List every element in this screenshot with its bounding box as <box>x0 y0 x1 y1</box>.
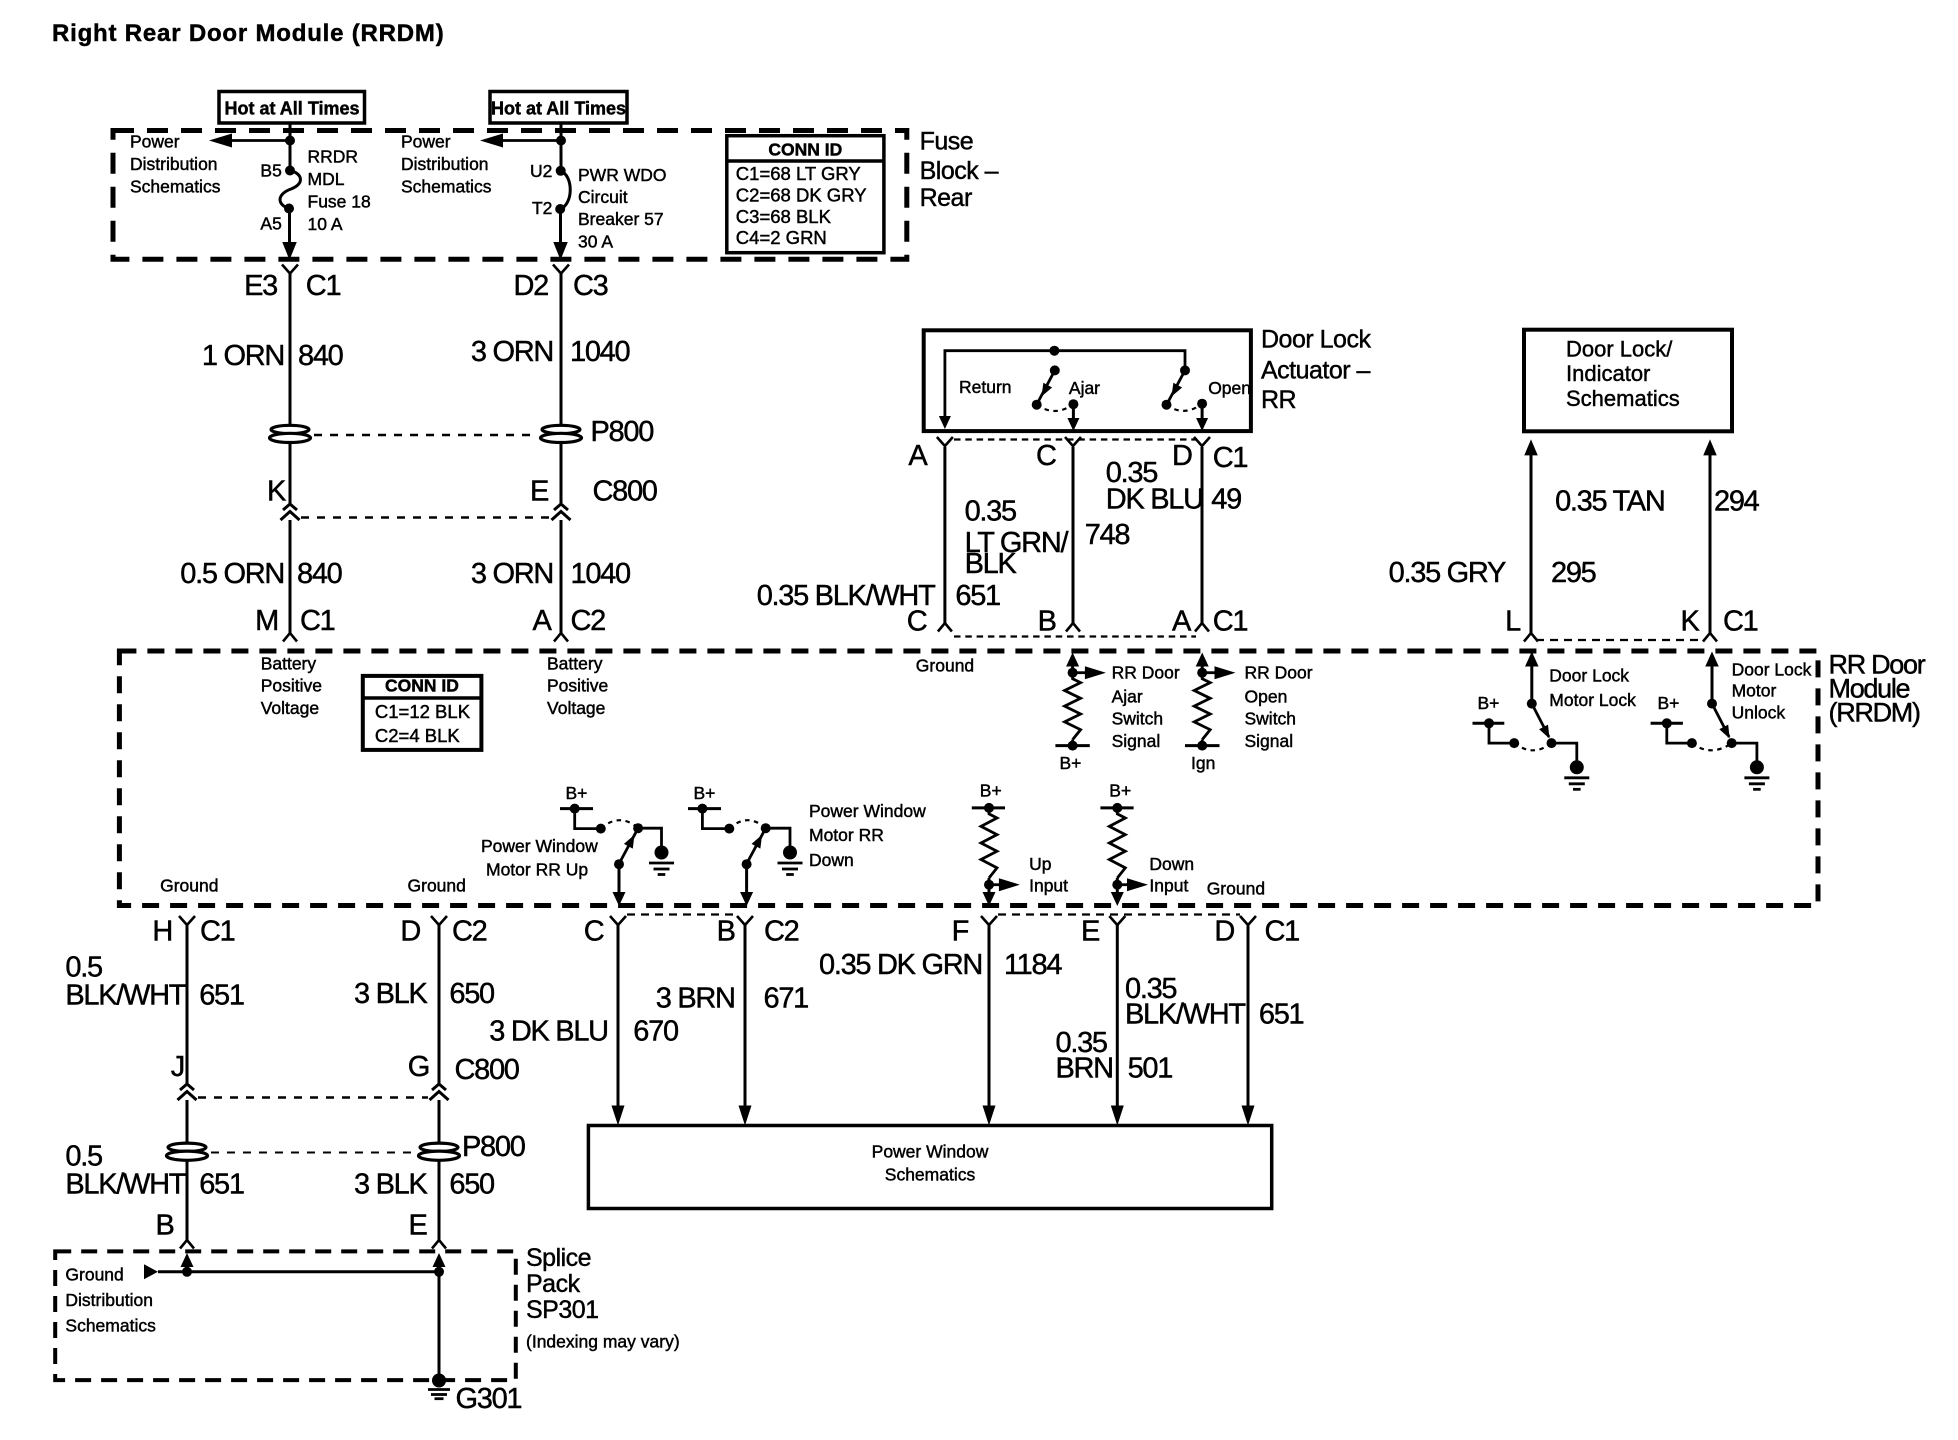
wire connector to M <box>289 520 292 633</box>
ajar switch pivot junction dot <box>1049 346 1059 356</box>
svg-text:E: E <box>408 1210 427 1242</box>
ajar signal B+ bar <box>1055 744 1089 747</box>
connector link dashed wire <box>301 516 550 519</box>
wire K up arrow <box>1703 439 1717 455</box>
svg-text:Ajar: Ajar <box>1112 687 1143 707</box>
down input output arrow <box>1116 885 1119 893</box>
wire connector to A <box>560 520 563 633</box>
open switch thrown contact dot <box>1162 400 1172 410</box>
wire B to pw box <box>744 925 747 1107</box>
svg-text:0.35 GRY: 0.35 GRY <box>1389 557 1506 589</box>
svg-text:A5: A5 <box>260 213 281 233</box>
svg-text:Distribution: Distribution <box>130 154 218 174</box>
svg-text:T2: T2 <box>532 198 552 218</box>
svg-text:Positive: Positive <box>547 676 608 696</box>
wire F to pw box <box>988 925 991 1107</box>
hot-at-all-times box 1 <box>219 92 365 124</box>
svg-text:RR Door: RR Door <box>1112 662 1180 682</box>
svg-text:A: A <box>1172 606 1192 638</box>
wire grommet to connector K <box>289 443 292 504</box>
svg-text:BLK/WHT: BLK/WHT <box>65 1169 186 1201</box>
up input wire <box>988 878 991 885</box>
svg-text:Actuator –: Actuator – <box>1261 356 1371 384</box>
svg-text:B5: B5 <box>260 160 281 180</box>
svg-text:Indicator: Indicator <box>1566 361 1650 386</box>
ajar switch upper contact dot <box>1050 365 1060 375</box>
ground G301 symbol <box>432 1374 446 1388</box>
svg-text:0.35: 0.35 <box>965 495 1016 527</box>
svg-text:Splice: Splice <box>526 1244 591 1272</box>
grommet link dashed wire <box>314 434 537 437</box>
svg-text:SP301: SP301 <box>526 1296 599 1324</box>
svg-text:C2: C2 <box>571 605 606 637</box>
pw up output wire <box>618 864 621 893</box>
open switch corner dot <box>1180 365 1190 375</box>
svg-text:651: 651 <box>199 1169 244 1201</box>
svg-text:(RRDM): (RRDM) <box>1829 698 1920 728</box>
pw C1 connector dashed link <box>998 913 1240 915</box>
svg-text:3 BLK: 3 BLK <box>354 1169 428 1201</box>
svg-text:651: 651 <box>955 580 1000 612</box>
svg-text:Open: Open <box>1245 687 1288 707</box>
fork E (splice) <box>432 1240 446 1249</box>
ajar switch thrown contact dot <box>1032 400 1042 410</box>
pw up switch contact dot <box>596 824 606 834</box>
wire E to pw box <box>1116 925 1119 1107</box>
svg-text:C3=68 BLK: C3=68 BLK <box>736 206 832 227</box>
ajar signal resistor <box>1065 673 1081 740</box>
ajar signal input arrow <box>1066 653 1079 667</box>
in-line connector C800 G <box>432 1084 446 1090</box>
wire to G301 <box>438 1272 441 1375</box>
svg-text:BLK: BLK <box>965 548 1018 580</box>
actuator wire C-B <box>1072 447 1075 623</box>
svg-text:C: C <box>1036 440 1056 472</box>
terminal fork D2/C3 <box>553 265 569 274</box>
svg-text:Right Rear Door Module (RRDM): Right Rear Door Module (RRDM) <box>52 20 445 47</box>
svg-text:501: 501 <box>1128 1053 1173 1085</box>
svg-text:C3: C3 <box>573 270 608 302</box>
lock motor output arrow <box>1525 652 1539 667</box>
svg-text:B+: B+ <box>694 783 716 803</box>
svg-text:CONN ID: CONN ID <box>385 676 459 696</box>
pw down switch pivot dot <box>761 823 771 833</box>
svg-text:3 ORN: 3 ORN <box>471 558 553 590</box>
wire hot box2 to breaker <box>560 123 563 171</box>
svg-text:Power: Power <box>130 132 180 152</box>
svg-text:3 BLK: 3 BLK <box>354 978 428 1010</box>
svg-text:Power Window: Power Window <box>809 801 926 821</box>
svg-text:PWR WDO: PWR WDO <box>578 165 666 185</box>
wire L up arrow <box>1524 439 1538 455</box>
svg-text:840: 840 <box>298 340 343 372</box>
actuator wire D-A <box>1201 447 1204 623</box>
svg-text:650: 650 <box>449 978 494 1010</box>
open output wire with arrowhead <box>1201 404 1204 420</box>
svg-text:Ground: Ground <box>160 876 218 896</box>
svg-text:MDL: MDL <box>308 169 345 189</box>
svg-text:Hot at All Times: Hot at All Times <box>491 99 626 119</box>
fork D2 (pw C1) <box>1240 916 1256 925</box>
svg-text:C1=68 LT GRY: C1=68 LT GRY <box>736 163 861 184</box>
wire J to grommet <box>186 1100 189 1143</box>
svg-text:C: C <box>584 916 604 948</box>
svg-text:0.35 TAN: 0.35 TAN <box>1555 486 1664 518</box>
svg-text:M: M <box>255 605 278 637</box>
svg-text:Power Window: Power Window <box>872 1141 989 1161</box>
pw up switch pivot dot <box>633 823 643 833</box>
power distribution branch arrow 2 <box>503 139 561 142</box>
svg-text:Ground: Ground <box>65 1265 123 1285</box>
svg-text:J: J <box>171 1051 184 1083</box>
fork B (pw C2) <box>737 916 753 925</box>
wire grommet to B <box>186 1161 189 1240</box>
ajar signal branch arrow <box>1073 671 1085 674</box>
svg-text:Battery: Battery <box>547 653 603 673</box>
in-line connector C800 J <box>180 1084 194 1090</box>
wire D2 to grommet <box>560 274 563 426</box>
grommet P800 (right) <box>542 425 580 433</box>
actuator connector dashed lines <box>954 438 1196 440</box>
wire C to pw box <box>617 925 620 1107</box>
svg-text:C1: C1 <box>1265 916 1300 948</box>
svg-text:3 BRN: 3 BRN <box>656 982 735 1014</box>
svg-text:10 A: 10 A <box>308 214 343 234</box>
svg-text:670: 670 <box>633 1015 678 1047</box>
wire H down <box>186 925 189 1084</box>
open signal resistor <box>1194 673 1210 740</box>
svg-text:49: 49 <box>1211 484 1241 516</box>
svg-text:Fuse: Fuse <box>920 127 974 155</box>
svg-text:Schematics: Schematics <box>1566 386 1680 411</box>
indicator connector dashed link <box>1536 639 1705 641</box>
lock motor ground branch <box>1552 743 1577 760</box>
svg-text:RR: RR <box>1261 386 1296 414</box>
svg-text:K: K <box>267 476 287 508</box>
svg-text:Schematics: Schematics <box>401 177 492 197</box>
svg-text:H: H <box>152 916 172 948</box>
svg-text:Signal: Signal <box>1112 731 1161 751</box>
in-line connector C800 K/E (left) <box>283 504 297 510</box>
fork D (actuator) <box>1194 437 1210 446</box>
svg-text:B+: B+ <box>566 783 588 803</box>
pw down switch blade <box>748 828 766 861</box>
pw down switch contact dot <box>724 824 734 834</box>
svg-text:Motor RR Up: Motor RR Up <box>486 860 588 880</box>
svg-text:Switch: Switch <box>1112 708 1164 728</box>
wire E3 to grommet <box>289 274 292 426</box>
pw up switch ground branch <box>638 828 661 846</box>
connector link dashed wire (bottom) <box>198 1096 428 1099</box>
svg-text:1040: 1040 <box>571 558 630 590</box>
fork B bottom (actuator) <box>1066 623 1080 632</box>
svg-text:1184: 1184 <box>1004 949 1062 981</box>
unlock motor pivot dot <box>1707 699 1717 709</box>
unlock motor blade contact dot <box>1727 738 1737 748</box>
svg-text:C1: C1 <box>306 270 341 302</box>
up input resistor <box>981 808 997 878</box>
svg-text:BRN: BRN <box>1056 1053 1113 1085</box>
svg-text:Down: Down <box>1149 854 1194 874</box>
unlock motor output arrow <box>1705 652 1719 667</box>
lock motor ground <box>1570 760 1584 774</box>
svg-text:Door Lock/: Door Lock/ <box>1566 337 1673 362</box>
return arrowhead <box>939 416 951 429</box>
fork K (RRDM C1) <box>1703 633 1717 642</box>
junction dot B2 <box>556 136 566 146</box>
open switch blade <box>1168 370 1186 403</box>
in-line connector C800 E (right) <box>554 504 568 510</box>
svg-text:B+: B+ <box>1060 753 1082 773</box>
svg-text:1040: 1040 <box>570 336 629 368</box>
pw down switch blade dot <box>742 859 752 869</box>
ground distribution entry arrow <box>144 1264 158 1279</box>
svg-text:Signal: Signal <box>1245 731 1294 751</box>
svg-text:Door Lock: Door Lock <box>1732 660 1812 680</box>
svg-text:Ground: Ground <box>1207 879 1265 899</box>
svg-text:840: 840 <box>297 558 342 590</box>
svg-text:Ign: Ign <box>1191 753 1215 773</box>
pw down switch feed elbow <box>702 809 729 829</box>
svg-text:Unlock: Unlock <box>1732 702 1786 722</box>
circuit breaker 57 (symbol) <box>556 166 566 176</box>
svg-text:Voltage: Voltage <box>261 698 319 718</box>
svg-text:Ground: Ground <box>408 876 466 896</box>
svg-text:K: K <box>1680 606 1700 638</box>
svg-text:Schematics: Schematics <box>65 1316 156 1336</box>
unlock motor feed contact dot <box>1687 738 1697 748</box>
svg-text:D: D <box>400 916 420 948</box>
svg-text:C1: C1 <box>1213 442 1248 474</box>
power distribution branch arrow (left) <box>232 139 290 142</box>
lock motor feed elbow <box>1489 723 1514 743</box>
svg-text:Motor: Motor <box>1732 681 1777 701</box>
svg-text:B: B <box>1038 606 1056 638</box>
junction dot B1 <box>285 136 295 146</box>
svg-text:0.35 DK GRN: 0.35 DK GRN <box>819 949 982 981</box>
svg-text:Ajar: Ajar <box>1069 378 1100 398</box>
svg-text:Door Lock: Door Lock <box>1261 326 1371 354</box>
svg-text:DK BLU: DK BLU <box>1106 484 1203 516</box>
svg-text:Circuit: Circuit <box>578 187 628 207</box>
lock motor feed contact dot <box>1509 738 1519 748</box>
svg-text:B: B <box>717 916 735 948</box>
fork E (pw C1) <box>1109 916 1125 925</box>
fork C (actuator) <box>1065 437 1081 446</box>
svg-text:Return: Return <box>959 377 1012 397</box>
svg-text:Battery: Battery <box>261 653 317 673</box>
svg-text:30 A: 30 A <box>578 232 613 252</box>
down input wire <box>1116 878 1119 885</box>
svg-text:Motor Lock: Motor Lock <box>1549 690 1636 710</box>
lock motor blade <box>1532 704 1549 737</box>
svg-text:Up: Up <box>1029 854 1051 874</box>
grommet P800 (left) <box>271 425 309 433</box>
svg-text:Distribution: Distribution <box>65 1290 153 1310</box>
open switch travel arc <box>1167 404 1203 411</box>
svg-text:651: 651 <box>199 980 244 1012</box>
svg-text:Distribution: Distribution <box>401 154 489 174</box>
lock motor pivot dot <box>1527 699 1537 709</box>
open switch common dot <box>1197 399 1207 409</box>
svg-text:C2=68 DK GRY: C2=68 DK GRY <box>736 185 867 206</box>
svg-text:Breaker 57: Breaker 57 <box>578 209 664 229</box>
door lock actuator box <box>924 330 1251 431</box>
fork L (RRDM C1) <box>1524 633 1538 642</box>
fork A (actuator) <box>937 437 953 446</box>
svg-text:(Indexing may vary): (Indexing may vary) <box>526 1332 680 1352</box>
svg-text:A: A <box>908 440 928 472</box>
pw up switch feed elbow <box>575 809 601 829</box>
svg-text:Motor RR: Motor RR <box>809 825 884 845</box>
svg-text:C1: C1 <box>1723 606 1758 638</box>
svg-text:Input: Input <box>1029 876 1068 896</box>
svg-text:Positive: Positive <box>261 676 322 696</box>
pw up switch ground <box>655 846 669 860</box>
ajar signal junction dot <box>1068 668 1078 678</box>
svg-text:E3: E3 <box>244 270 277 302</box>
open signal input arrow <box>1196 653 1209 667</box>
unlock motor ground branch <box>1732 743 1757 760</box>
ajar switch travel arc <box>1037 404 1074 411</box>
svg-text:Door Lock: Door Lock <box>1549 666 1629 686</box>
svg-text:G301: G301 <box>456 1383 522 1415</box>
unlock motor travel arc <box>1692 743 1732 750</box>
svg-text:B+: B+ <box>1658 693 1680 713</box>
ajar output wire with arrowhead <box>1072 404 1075 420</box>
svg-text:C800: C800 <box>455 1054 519 1086</box>
pw up switch blade dot <box>614 859 624 869</box>
wire grommet to E <box>438 1161 441 1240</box>
svg-text:Block –: Block – <box>920 157 999 185</box>
grommet P800 bottom (left) <box>168 1143 206 1151</box>
lock motor blade contact dot <box>1547 738 1557 748</box>
svg-text:Rear: Rear <box>920 184 972 212</box>
svg-text:F: F <box>952 916 969 948</box>
unlock motor feed elbow <box>1667 723 1692 743</box>
open signal branch arrow <box>1202 671 1215 674</box>
svg-text:3 DK BLU: 3 DK BLU <box>489 1015 608 1047</box>
svg-text:L: L <box>1505 606 1521 638</box>
svg-text:P800: P800 <box>462 1131 525 1163</box>
svg-text:B+: B+ <box>980 781 1002 801</box>
fork H (RRDM C1) <box>179 916 195 925</box>
svg-text:U2: U2 <box>530 161 552 181</box>
pw down switch ground <box>783 846 797 860</box>
svg-text:Voltage: Voltage <box>547 698 605 718</box>
splice up arrow E <box>433 1253 446 1267</box>
svg-text:CONN ID: CONN ID <box>768 140 842 160</box>
svg-text:Input: Input <box>1149 876 1188 896</box>
svg-text:C1: C1 <box>1213 606 1248 638</box>
grommet P800 bottom (right) <box>420 1143 458 1151</box>
svg-text:1 ORN: 1 ORN <box>202 340 284 372</box>
pw down switch ground branch <box>766 828 790 846</box>
down input branch arrow <box>1117 883 1128 886</box>
down input junction dot <box>1112 880 1122 890</box>
svg-text:671: 671 <box>764 982 809 1014</box>
svg-text:Pack: Pack <box>526 1270 581 1298</box>
svg-text:Schematics: Schematics <box>885 1165 976 1185</box>
ajar switch common dot <box>1068 399 1078 409</box>
svg-text:B+: B+ <box>1478 693 1500 713</box>
fuse block dashed box <box>113 131 907 260</box>
wire D2 to pw box <box>1247 925 1250 1107</box>
unlock motor ground <box>1750 760 1764 774</box>
ajar switch blade <box>1038 370 1055 403</box>
open signal junction dot <box>1197 668 1207 678</box>
splice pack dashed box <box>55 1251 516 1380</box>
down input resistor <box>1109 808 1125 878</box>
wire T2 down to fuse block edge <box>559 209 562 245</box>
svg-text:Power Window: Power Window <box>481 836 598 856</box>
hot-at-all-times box 2 <box>490 92 627 124</box>
svg-text:C2=4 BLK: C2=4 BLK <box>375 725 461 746</box>
splice bus wire <box>158 1270 439 1273</box>
fork D (RRDM C2) <box>431 916 447 925</box>
CONN ID table (RRDM) <box>363 676 482 750</box>
svg-text:Ground: Ground <box>916 656 974 676</box>
open signal Ign bar <box>1185 744 1220 747</box>
svg-text:C1: C1 <box>300 605 335 637</box>
power window schematics box <box>588 1126 1271 1209</box>
svg-text:D: D <box>1172 440 1192 472</box>
svg-text:295: 295 <box>1551 557 1596 589</box>
svg-text:D: D <box>1214 916 1234 948</box>
pw C2 connector dashed link <box>627 913 737 915</box>
svg-text:C2: C2 <box>764 916 799 948</box>
svg-text:0.5 ORN: 0.5 ORN <box>180 558 284 590</box>
unlock motor blade <box>1712 704 1729 737</box>
svg-text:Schematics: Schematics <box>130 177 221 197</box>
lock motor travel arc <box>1514 743 1551 750</box>
splice up arrow B <box>181 1253 194 1267</box>
up input junction dot <box>984 880 994 890</box>
svg-text:C1=12 BLK: C1=12 BLK <box>375 701 471 722</box>
svg-text:G: G <box>408 1051 429 1083</box>
fork C (pw C2) <box>610 916 626 925</box>
fork A bottom (actuator) <box>1195 623 1209 632</box>
svg-text:650: 650 <box>449 1169 494 1201</box>
pw up switch blade <box>621 828 639 861</box>
svg-text:748: 748 <box>1085 519 1130 551</box>
pw up switch travel arc <box>601 820 638 828</box>
svg-text:BLK/WHT: BLK/WHT <box>65 980 186 1012</box>
up input branch arrow <box>989 883 1000 886</box>
door lock indicator box <box>1524 330 1732 432</box>
fork B (splice) <box>180 1240 194 1249</box>
svg-text:B: B <box>156 1210 174 1242</box>
wire A5 down to fuse block edge <box>288 209 291 246</box>
svg-text:C800: C800 <box>593 476 657 508</box>
svg-text:Hot at All Times: Hot at All Times <box>224 99 359 119</box>
RR door module dashed box <box>119 651 1818 906</box>
wire grommet to connector E <box>560 443 563 504</box>
actuator wire A-C <box>943 447 946 623</box>
svg-text:Fuse 18: Fuse 18 <box>308 192 371 212</box>
svg-text:D2: D2 <box>514 270 549 302</box>
terminal fork E3/C1 <box>282 265 298 274</box>
up input output arrow <box>988 885 991 893</box>
svg-text:RRDR: RRDR <box>308 147 359 167</box>
svg-text:E: E <box>1081 916 1100 948</box>
wire G to grommet <box>438 1100 441 1143</box>
svg-text:C1: C1 <box>200 916 235 948</box>
svg-text:RR Door: RR Door <box>1245 662 1313 682</box>
fork C bottom (actuator) <box>938 623 952 632</box>
pw down output wire <box>745 864 748 893</box>
svg-text:A: A <box>532 605 552 637</box>
